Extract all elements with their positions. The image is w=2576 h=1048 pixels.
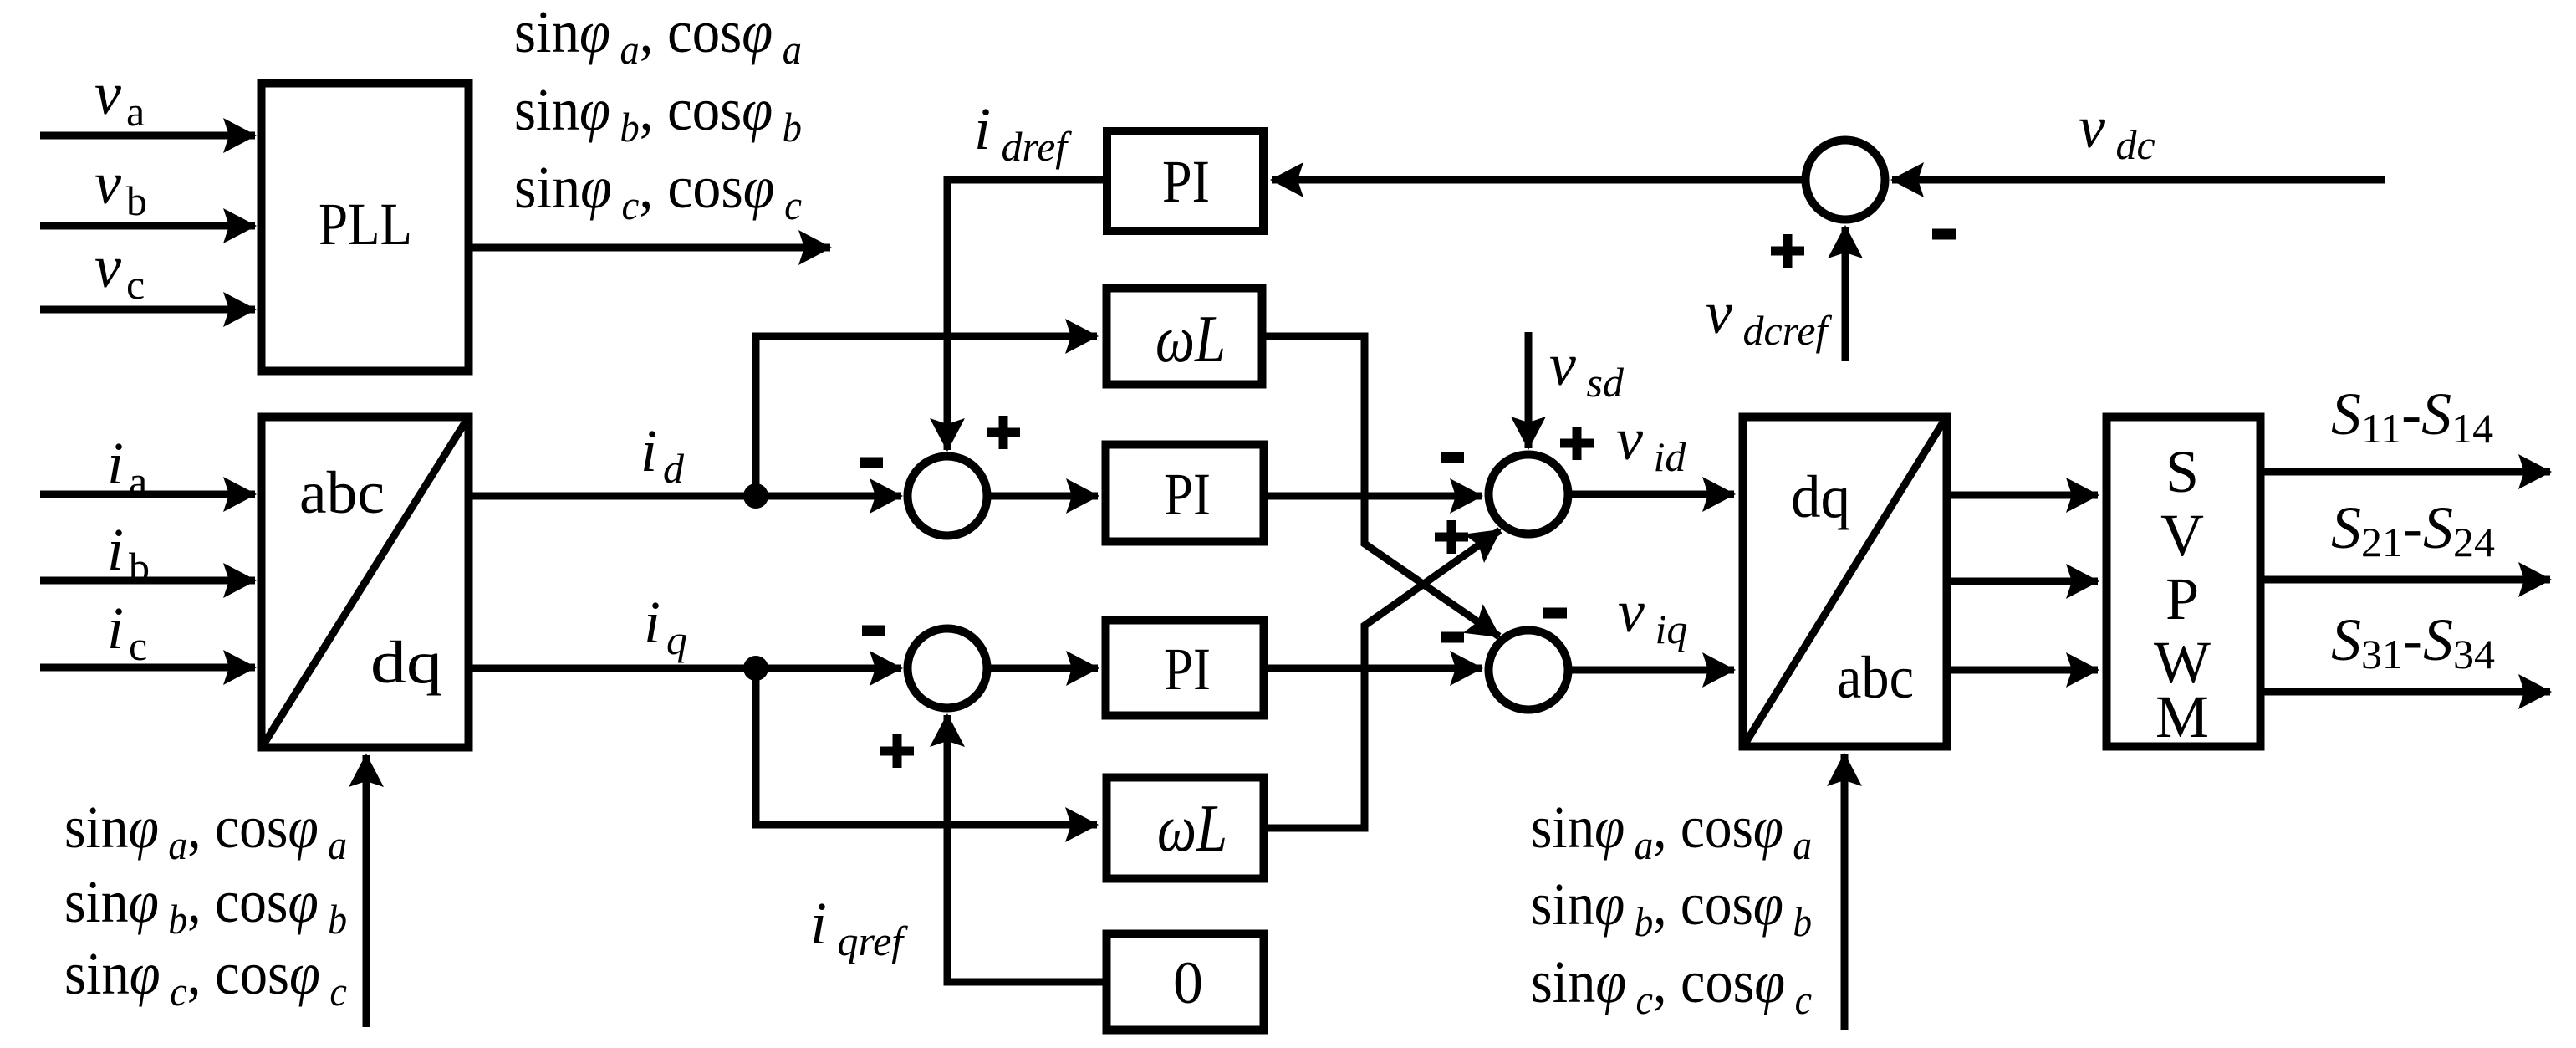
label ib <box>107 516 150 590</box>
sign minus S5 right <box>1932 229 1956 240</box>
label idref <box>974 95 1072 170</box>
wire ia input <box>40 491 255 498</box>
label viq <box>1618 578 1687 652</box>
svg-text:v id: v id <box>1616 406 1686 480</box>
label S31-S34 <box>2331 606 2495 677</box>
svg-text:ic: ic <box>107 595 147 669</box>
label 0 <box>1173 949 1203 1016</box>
label ic <box>107 595 147 669</box>
wire dq-abc to SVPWM row3 <box>1951 667 2098 674</box>
wire id branch to omega-L top <box>756 336 1097 496</box>
wire ib input <box>40 577 255 585</box>
label vc <box>94 233 145 308</box>
label sincos PLL row a <box>514 0 802 73</box>
label dq (block 2) <box>1791 463 1850 530</box>
sign minus S4 left <box>1441 632 1464 643</box>
block abc-dq (current transform) <box>262 417 469 748</box>
svg-text:V: V <box>2160 502 2204 569</box>
label sincos bottom-right row c <box>1531 948 1812 1023</box>
svg-text:sinφ a, cosφ a: sinφ a, cosφ a <box>1531 794 1812 868</box>
wire iq <box>472 665 901 672</box>
wire PI d output to S3 <box>1268 493 1482 500</box>
wire omega-L bottom cross to S3 <box>1266 530 1500 828</box>
svg-text:v iq: v iq <box>1618 578 1687 652</box>
svg-text:ωL: ωL <box>1157 792 1227 866</box>
wire viq to dq-abc <box>1572 667 1734 674</box>
wire idref from PI to S1 <box>947 180 1104 450</box>
svg-text:M: M <box>2155 683 2209 750</box>
label dq (block 1) <box>370 629 442 696</box>
label sincos bottom-right row a <box>1531 794 1812 868</box>
svg-text:S21-S24: S21-S24 <box>2331 494 2495 565</box>
svg-text:sinφ b, cosφ b: sinφ b, cosφ b <box>1531 871 1812 945</box>
block SVPWM <box>2107 417 2261 747</box>
block PI q-axis <box>1106 621 1264 716</box>
sign plus S5 bottom <box>1771 234 1804 268</box>
svg-text:sinφ b, cosφ b: sinφ b, cosφ b <box>514 76 802 151</box>
node id junction <box>743 483 768 509</box>
label PI d <box>1164 461 1211 528</box>
svg-text:sinφ c, cosφ c: sinφ c, cosφ c <box>1531 948 1812 1023</box>
label PI top <box>1162 148 1210 215</box>
wire va input <box>40 132 255 140</box>
sign plus S3 diagonal <box>1435 520 1468 554</box>
block PLL <box>262 84 469 371</box>
wire S5 to PI <box>1272 176 1802 184</box>
label S11-S14 <box>2331 381 2493 452</box>
summing junction S3 (vid) <box>1489 455 1569 534</box>
block PI (dc voltage) <box>1107 131 1263 231</box>
label PI q <box>1164 636 1211 703</box>
sign plus S3 top <box>1560 427 1594 460</box>
block omega-L bottom <box>1107 778 1264 879</box>
label iqref <box>810 890 908 964</box>
wire vid to dq-abc <box>1572 491 1734 498</box>
label omega-L bottom <box>1157 792 1227 866</box>
svg-text:abc: abc <box>299 459 385 526</box>
label sincos PLL row b <box>514 76 802 151</box>
label va <box>94 60 145 135</box>
label sincos bottom-left row b <box>64 868 347 943</box>
wire vsd into S3 <box>1525 332 1533 448</box>
svg-text:PI: PI <box>1162 148 1210 215</box>
block zero reference <box>1107 934 1264 1030</box>
label id <box>640 417 685 492</box>
svg-text:abc: abc <box>1837 644 1914 711</box>
label SVPWM <box>2154 438 2211 750</box>
wire iqref from zero block to S2 <box>947 715 1103 982</box>
wire sincos into dq-abc <box>1841 754 1849 1030</box>
wire S1 to PI d <box>991 493 1098 500</box>
wire vdc input <box>1892 176 2385 184</box>
wire ic input <box>40 664 255 672</box>
svg-text:va: va <box>94 60 145 135</box>
svg-text:sinφ b, cosφ b: sinφ b, cosφ b <box>64 868 347 943</box>
svg-text:dq: dq <box>370 629 442 696</box>
label vsd <box>1549 331 1625 406</box>
sign minus S1 left <box>860 458 883 468</box>
svg-text:id: id <box>640 417 685 492</box>
block omega-L top <box>1107 289 1262 385</box>
label omega-L top <box>1155 303 1226 376</box>
svg-text:0: 0 <box>1173 949 1203 1016</box>
svg-text:vb: vb <box>94 150 147 224</box>
svg-text:ib: ib <box>107 516 150 590</box>
wire dq-abc to SVPWM row1 <box>1951 492 2098 499</box>
label vb <box>94 150 147 224</box>
svg-text:PI: PI <box>1164 461 1211 528</box>
wire S2 to PI q <box>991 665 1098 672</box>
svg-text:iq: iq <box>644 589 687 663</box>
summing junction S2 (iq error) <box>908 629 987 708</box>
svg-text:v dc: v dc <box>2079 94 2155 168</box>
wire S31-S34 output <box>2264 688 2550 696</box>
summing junction S1 (id error) <box>908 457 987 536</box>
svg-text:PLL: PLL <box>319 191 412 258</box>
svg-text:sinφ c, cosφ c: sinφ c, cosφ c <box>64 940 347 1015</box>
svg-text:PI: PI <box>1164 636 1211 703</box>
svg-text:S11-S14: S11-S14 <box>2331 381 2493 452</box>
label vdcref <box>1706 279 1832 354</box>
wire vc input <box>40 306 255 314</box>
sign minus S2 left <box>862 626 885 636</box>
svg-text:vc: vc <box>94 233 145 308</box>
node iq junction <box>743 656 768 681</box>
label vdc <box>2079 94 2155 168</box>
wire PI q output to S4 <box>1268 665 1482 672</box>
wire S21-S24 output <box>2264 576 2550 584</box>
wire omega-L top cross to S4 <box>1266 336 1499 636</box>
wire sincos into abc-dq <box>363 755 370 1027</box>
label S21-S24 <box>2331 494 2495 565</box>
svg-text:S: S <box>2165 438 2199 505</box>
summing junction S4 (viq) <box>1489 631 1569 710</box>
label ia <box>107 430 147 504</box>
label vid <box>1616 406 1686 480</box>
svg-text:S31-S34: S31-S34 <box>2331 606 2495 677</box>
svg-text:i qref: i qref <box>810 890 908 964</box>
svg-text:v sd: v sd <box>1549 331 1625 406</box>
sign minus S3 left <box>1441 452 1464 463</box>
wire id <box>472 493 901 500</box>
label sincos bottom-right row b <box>1531 871 1812 945</box>
svg-text:sinφ a, cosφ a: sinφ a, cosφ a <box>514 0 802 73</box>
summing junction S5 (vdc error) <box>1806 141 1885 220</box>
wire PLL output <box>472 244 830 252</box>
label abc (block 1) <box>299 459 385 526</box>
label PLL <box>319 191 412 258</box>
block PI d-axis <box>1106 445 1264 542</box>
label sincos PLL row c <box>514 154 802 228</box>
label abc (block 2) <box>1837 644 1914 711</box>
svg-text:dq: dq <box>1791 463 1850 530</box>
svg-text:ωL: ωL <box>1155 303 1226 376</box>
wire S11-S14 output <box>2264 468 2550 476</box>
sign minus S4 diagonal <box>1543 608 1567 619</box>
wire dq-abc to SVPWM row2 <box>1951 578 2098 585</box>
sign plus S2 bottom <box>880 734 914 768</box>
svg-text:sinφ c, cosφ c: sinφ c, cosφ c <box>514 154 802 228</box>
label iq <box>644 589 687 663</box>
wire vb input <box>40 222 255 230</box>
svg-text:v dcref: v dcref <box>1706 279 1832 354</box>
label sincos bottom-left row c <box>64 940 347 1015</box>
block dq-abc (inverse transform) <box>1743 417 1947 747</box>
sign plus S1 top <box>987 416 1020 449</box>
svg-text:sinφ a, cosφ a: sinφ a, cosφ a <box>64 794 347 868</box>
wire vdcref into S5 <box>1842 227 1849 361</box>
svg-text:i dref: i dref <box>974 95 1072 170</box>
label sincos bottom-left row a <box>64 794 347 868</box>
svg-text:P: P <box>2165 565 2199 632</box>
wire iq branch to omega-L bottom <box>756 668 1097 825</box>
